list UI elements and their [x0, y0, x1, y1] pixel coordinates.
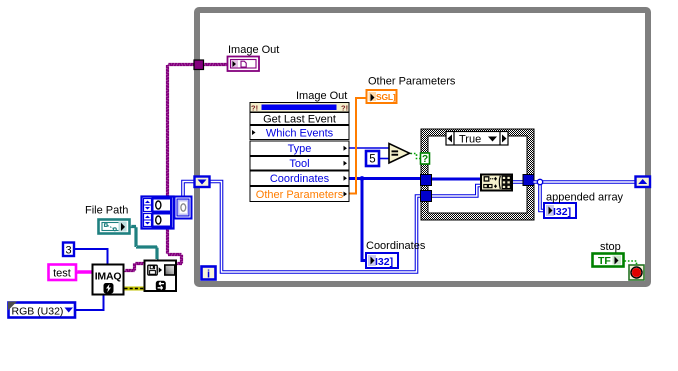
wire image (ReadFile out to Image Out tunnel, purple zigzag)	[167, 64, 194, 265]
indicator appended array [I32]	[544, 203, 576, 218]
constant 3	[63, 243, 74, 257]
tunnel image out (purple, on loop border)	[194, 60, 204, 70]
property node row Coordinates	[250, 171, 349, 186]
property node row Tool	[250, 157, 349, 171]
wire string (test to IMAQ Create, pink zigzag)	[77, 271, 92, 273]
wire array (junction to appended array indicator)	[540, 182, 545, 211]
wire array init (empty array constant to left shift register)	[183, 182, 195, 198]
node IMAQ ReadFile	[145, 261, 177, 292]
tunnel right (case)	[523, 175, 534, 186]
wire array (Build Array output to right tunnel)	[512, 180, 524, 184]
svg-text:SGL]: SGL]	[376, 92, 396, 102]
wire I32 (constant 5 to equals node, blue)	[379, 158, 389, 160]
tunnel lower-left (case)	[421, 191, 432, 202]
node IMAQ Create	[93, 265, 124, 295]
wire SGL array (Other Parameters to SGL indicator, orange)	[349, 98, 367, 194]
wire I32 array (upper tunnel to Build Array, thick blue)	[431, 178, 482, 181]
svg-text:Type: Type	[288, 143, 312, 155]
svg-text:TF: TF	[598, 255, 611, 267]
svg-text:Image Out: Image Out	[296, 90, 347, 102]
wire boolean (stop to conditional terminal, green dotted)	[625, 261, 637, 265]
svg-text:?!: ?!	[341, 104, 348, 113]
wire I32 array (Coordinates output, thick blue)	[349, 177, 421, 180]
svg-text:True: True	[459, 134, 481, 146]
svg-text:Image Out: Image Out	[228, 44, 279, 56]
svg-text:File Path: File Path	[85, 205, 128, 217]
svg-text:5: 5	[369, 154, 375, 166]
property node row Get Last Event	[250, 113, 349, 126]
wire image (tunnel to Image Out indicator, purple zigzag)	[204, 64, 227, 66]
wire I32 (Type output to equals node, blue)	[349, 147, 389, 149]
junction dot on Coordinates wire	[360, 176, 365, 181]
svg-text:I32]: I32]	[375, 256, 393, 268]
right shift register	[636, 177, 651, 188]
svg-text:?!: ?!	[251, 104, 258, 113]
tunnel upper-left (case)	[421, 175, 432, 186]
constant test (string)	[49, 265, 77, 281]
svg-text:stop: stop	[600, 241, 621, 253]
property node row Type	[250, 141, 349, 156]
constant RGB (U32) enum	[8, 302, 75, 318]
svg-text:Tool: Tool	[289, 158, 309, 170]
wire error (IMAQ Create to ReadFile, dark yellow dashed)	[125, 287, 145, 291]
equals node	[389, 144, 410, 164]
constant 5	[366, 151, 379, 166]
svg-text:Other Parameters: Other Parameters	[368, 76, 456, 88]
svg-text:Coordinates: Coordinates	[366, 240, 426, 252]
wire array (left shift register to case lower tunnel)	[210, 182, 421, 273]
wire U32 (RGB enum to IMAQ Create)	[75, 295, 104, 311]
control stop (boolean TF)	[593, 254, 624, 268]
case selector label True	[446, 132, 508, 146]
indicator Coordinates [I32]	[366, 253, 398, 268]
case selector terminal ?	[421, 153, 430, 165]
wire I32 array (junction drop to Coordinates indicator, thick blue)	[362, 179, 366, 261]
svg-text:test: test	[53, 268, 71, 280]
Build Array node	[481, 175, 512, 191]
conditional terminal (stop if true)	[629, 265, 644, 280]
wire I32 (constant 3 to IMAQ Create)	[74, 249, 108, 264]
svg-text:Coordinates: Coordinates	[270, 173, 330, 185]
svg-text:Other Parameters: Other Parameters	[256, 189, 344, 201]
control File Path	[99, 220, 130, 234]
property node row Which Events	[250, 126, 349, 140]
iteration terminal i	[202, 267, 216, 281]
wire array (lower tunnel to Build Array)	[431, 186, 481, 197]
indicator Image Out (IMAQ image)	[228, 57, 260, 72]
while loop border	[197, 10, 648, 284]
indicator Other Parameters [SGL]	[367, 90, 397, 103]
svg-text:RGB (U32): RGB (U32)	[12, 306, 64, 318]
case structure border (checkered)	[421, 129, 534, 220]
array constant [0,0]	[142, 197, 174, 229]
empty array constant (loop init)	[175, 197, 192, 219]
svg-text:Get Last Event: Get Last Event	[263, 113, 336, 125]
svg-text:?: ?	[422, 154, 428, 165]
property node Image Out title bar	[250, 103, 349, 113]
svg-text:Which Events: Which Events	[266, 127, 334, 139]
svg-text:IMAQ: IMAQ	[95, 271, 122, 283]
svg-text:I32]: I32]	[553, 206, 571, 218]
junction circle (appended array branch)	[537, 179, 542, 184]
svg-text:3: 3	[65, 245, 71, 257]
svg-text:appended array: appended array	[546, 192, 624, 204]
wire boolean (equals node to case selector, green dotted)	[411, 154, 421, 159]
property node row Other Parameters	[250, 187, 349, 202]
left shift register	[195, 177, 210, 188]
wire image (IMAQ Create to ReadFile, purple zigzag)	[125, 263, 144, 272]
wire array (right tunnel to right shift register)	[534, 180, 636, 184]
wire path (File Path to ReadFile, teal zigzag)	[131, 226, 158, 260]
svg-text:i: i	[207, 269, 210, 281]
